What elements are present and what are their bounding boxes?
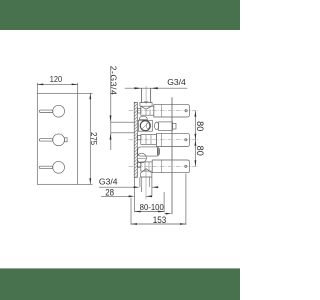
svg-text:2-G3/4: 2-G3/4	[108, 66, 118, 96]
small cylinder end marks	[158, 148, 159, 156]
knob 2 tab	[64, 138, 67, 142]
row1 cylinder	[154, 104, 190, 117]
153 left arrow	[131, 223, 137, 225]
knob 3 lever	[39, 166, 53, 168]
svg-text:80: 80	[195, 146, 205, 156]
bottom pipe outer walls	[140, 177, 152, 187]
green band top	[0, 0, 240, 30]
check valve body	[138, 120, 152, 131]
bottom roof nut	[141, 169, 152, 177]
bottom pipe centerline	[145, 168, 147, 199]
120 right arrow	[72, 84, 78, 86]
row3 cylinder inner line	[161, 160, 163, 173]
2-G3/4 top dim line	[125, 87, 188, 89]
275 bottom arrow	[89, 178, 91, 184]
svg-text:G3/4: G3/4	[167, 77, 186, 87]
153 dim line	[131, 223, 186, 225]
arrowheads	[37, 84, 196, 225]
round plug chord	[137, 158, 146, 160]
80/80 dim line right	[194, 111, 196, 167]
top pipe tick	[144, 101, 148, 103]
svg-text:28: 28	[105, 187, 114, 198]
80-100 extensions	[163, 192, 165, 212]
row1 cartridge lines	[146, 109, 150, 115]
svg-text:153: 153	[153, 215, 167, 225]
2-G3/4 pipe left arrow	[134, 87, 141, 89]
row2 screw hole	[185, 139, 187, 141]
knob 2 lever	[39, 139, 53, 141]
wall line	[171, 97, 173, 214]
knob 1 circle	[53, 105, 65, 117]
check valve dome	[139, 116, 147, 119]
row3 screw hole	[185, 165, 187, 167]
knob 2 circle	[53, 134, 65, 146]
green band bottom	[0, 268, 240, 300]
top funnel	[140, 103, 152, 110]
2-G3/4 leader down arrow	[110, 115, 112, 121]
round plug	[137, 153, 147, 163]
153 extensions	[131, 174, 186, 225]
row2 cylinder inner line	[161, 133, 163, 146]
28 arrow left	[146, 195, 152, 197]
2-G3/4 leader vertical	[110, 67, 112, 151]
row2 cylinder	[156, 133, 189, 146]
275 top arrow	[89, 93, 91, 99]
dim 275 line	[89, 93, 91, 184]
G3/4 bottom arrow right	[134, 186, 140, 188]
row3 cartridge	[141, 162, 152, 171]
2-G3/4 leader up arrow	[110, 134, 112, 140]
knob 1 lever	[39, 110, 53, 112]
80 mid arrow up	[195, 140, 197, 146]
80 top arrow up	[195, 111, 197, 117]
svg-text:80-100: 80-100	[140, 203, 165, 212]
row3 cylinder	[152, 160, 189, 173]
check valve slash	[142, 122, 149, 129]
bottom extension verticals	[135, 178, 152, 213]
row1 screw hole	[185, 110, 187, 112]
top pipe centerline	[145, 86, 147, 104]
153 right arrow	[180, 223, 186, 225]
80-100 right arrow	[158, 211, 164, 213]
G3/4 bottom leader	[99, 186, 159, 188]
dim 120 extension lines	[37, 83, 77, 94]
svg-text:G3/4: G3/4	[99, 177, 118, 187]
front view plate	[37, 93, 77, 184]
svg-text:275: 275	[89, 132, 98, 146]
28 dim line	[101, 195, 152, 197]
check valve circle	[140, 121, 150, 131]
bottom pipe inner walls	[142, 177, 150, 187]
svg-text:80: 80	[195, 121, 205, 131]
knob 3 circle	[53, 161, 65, 173]
row2 upper block	[159, 122, 173, 131]
check valve inner ellipse	[146, 123, 149, 129]
row1 cylinder inner line	[161, 104, 163, 117]
G3/4 bottom arrow left	[152, 186, 158, 188]
80-100 left arrow	[135, 211, 141, 213]
small cylinder between rows	[138, 147, 160, 156]
80-100 dim line	[135, 211, 165, 213]
row2 cartridge	[141, 135, 157, 145]
80 mid arrow down	[195, 134, 197, 140]
28 arrow right	[129, 195, 135, 197]
2-G3/4 pipe right arrow	[151, 87, 158, 89]
row1 cartridge	[141, 106, 154, 115]
wall depth arrow	[166, 213, 172, 215]
80 bottom arrow down	[195, 160, 197, 166]
row2 cap ellipse	[155, 122, 159, 130]
dim 275 extension lines	[78, 93, 93, 184]
120 left arrow	[37, 84, 43, 86]
row2 upper block end	[173, 123, 177, 129]
svg-text:120: 120	[50, 75, 63, 84]
row2 cartridge lines	[146, 135, 151, 145]
row centerlines	[129, 110, 199, 112]
wall depth arrow line	[165, 213, 167, 215]
row3 cartridge lines	[145, 162, 149, 171]
dim 120 line	[37, 83, 77, 85]
mounting plate (hatched)	[134, 102, 141, 177]
side view: top pipe walls	[142, 88, 151, 102]
inlet pipe hidden walls	[111, 122, 135, 133]
